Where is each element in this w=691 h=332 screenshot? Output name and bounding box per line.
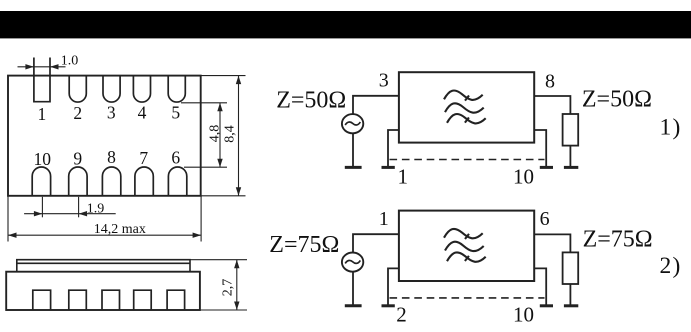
pin 3 [103,76,120,102]
circuit 2 source ground wire [352,272,354,305]
svg-text:10: 10 [513,164,534,188]
svg-text:1: 1 [38,104,47,124]
pin 2 [69,76,86,102]
circuit 2 AC source V2 [342,253,363,272]
side view pin stub 4 [134,290,152,310]
svg-text:1.0: 1.0 [61,54,79,69]
svg-text:5: 5 [171,102,180,122]
dimension 4.8 [181,103,227,167]
svg-text:1): 1) [660,115,682,141]
circuit 2 dashed ground bus [390,297,545,299]
side view pin stub 1 [33,290,51,310]
svg-text:6: 6 [171,147,180,167]
filter U1 wave 3 [447,114,486,123]
svg-text:8,4: 8,4 [223,125,238,143]
filter U1 wave 1 [444,90,483,99]
side view pin stub 3 [102,290,120,310]
circuit 1 pin 10 ground wire [534,130,546,166]
svg-text:7: 7 [139,148,148,168]
svg-text:3: 3 [107,102,116,122]
svg-text:14,2 max: 14,2 max [94,222,146,237]
filter U2 wave 1 [444,229,483,238]
filter U1 wave 1 cross [465,96,469,101]
svg-text:10: 10 [513,303,534,327]
pin 5 [168,76,185,102]
pin 9 [69,167,87,196]
circuit 2 load ground wire [569,284,571,305]
dimension 2.7 [190,260,247,310]
filter U2 wave 3 cross [465,256,469,261]
svg-text:Z=75Ω: Z=75Ω [583,226,653,252]
circuit 1 load resistor [563,114,579,146]
svg-text:8: 8 [545,71,555,93]
pin 4 [133,76,150,102]
filter U2 wave 3 [447,252,486,261]
filter U1 box [399,72,534,142]
package top view outline [8,76,201,196]
filter U2 box [399,211,534,281]
pin 8 [102,167,120,196]
svg-text:2): 2) [660,253,682,279]
svg-text:1: 1 [379,208,389,230]
svg-text:3: 3 [379,70,389,92]
package side view body [6,272,200,310]
svg-text:2: 2 [396,303,407,327]
package side view lid [17,260,190,272]
circuit 1 dashed ground bus [390,159,545,161]
filter U2 wave 2 [445,242,484,251]
circuit 1 load ground wire [569,146,571,167]
circuit 2 load ground [564,304,578,307]
svg-text:Z=50Ω: Z=50Ω [582,86,652,112]
circuit 2 pin 10 ground [540,304,553,307]
circuit 2 load resistor [563,252,579,284]
svg-text:2,7: 2,7 [221,279,236,297]
circuit 2 output wire [534,234,570,252]
filter U1 wave 2 [445,103,484,112]
pin 1 [34,58,50,102]
circuit 1 load ground [564,166,578,169]
circuit 2 pin 2 ground wire [388,268,399,304]
pin 10 [32,167,50,195]
svg-text:Z=75Ω: Z=75Ω [269,232,339,258]
side view pin stub 2 [69,290,87,310]
svg-text:1: 1 [397,164,408,188]
svg-text:4,8: 4,8 [208,125,223,143]
pin 7 [135,167,153,195]
circuit 1 output wire [534,96,570,114]
pin 6 [168,167,186,196]
circuit 2 source ground [345,304,362,307]
svg-text:8: 8 [107,147,116,167]
side view pin stub 5 [167,290,185,310]
dimension 8.4 [201,76,246,196]
dimension 1.9 [24,197,116,218]
svg-text:1.9: 1.9 [87,201,105,216]
svg-text:Z=50Ω: Z=50Ω [276,88,346,114]
circuit 1 pin 10 ground [540,166,553,169]
circuit 1 source ground wire [352,133,354,166]
circuit 1 AC source V1 [342,114,363,133]
filter U1 wave 3 cross [465,118,469,123]
circuit 2 input wire [353,234,399,253]
circuit 2 pin 10 ground wire [534,268,546,304]
circuit 1 pin 1 ground wire [388,130,399,166]
circuit 2 pin 2 ground [382,304,395,307]
svg-text:4: 4 [138,102,147,122]
dimension 1.0 [18,64,66,69]
circuit 1 input wire [353,96,399,115]
header bar [0,11,691,38]
svg-text:9: 9 [73,148,82,168]
circuit 1 source ground [345,166,362,169]
filter U2 wave 1 cross [465,234,469,239]
svg-text:10: 10 [34,149,52,169]
svg-text:6: 6 [540,208,550,230]
svg-text:2: 2 [73,103,82,123]
dimension 14.2 max [8,196,201,242]
circuit 1 pin 1 ground [382,166,395,169]
